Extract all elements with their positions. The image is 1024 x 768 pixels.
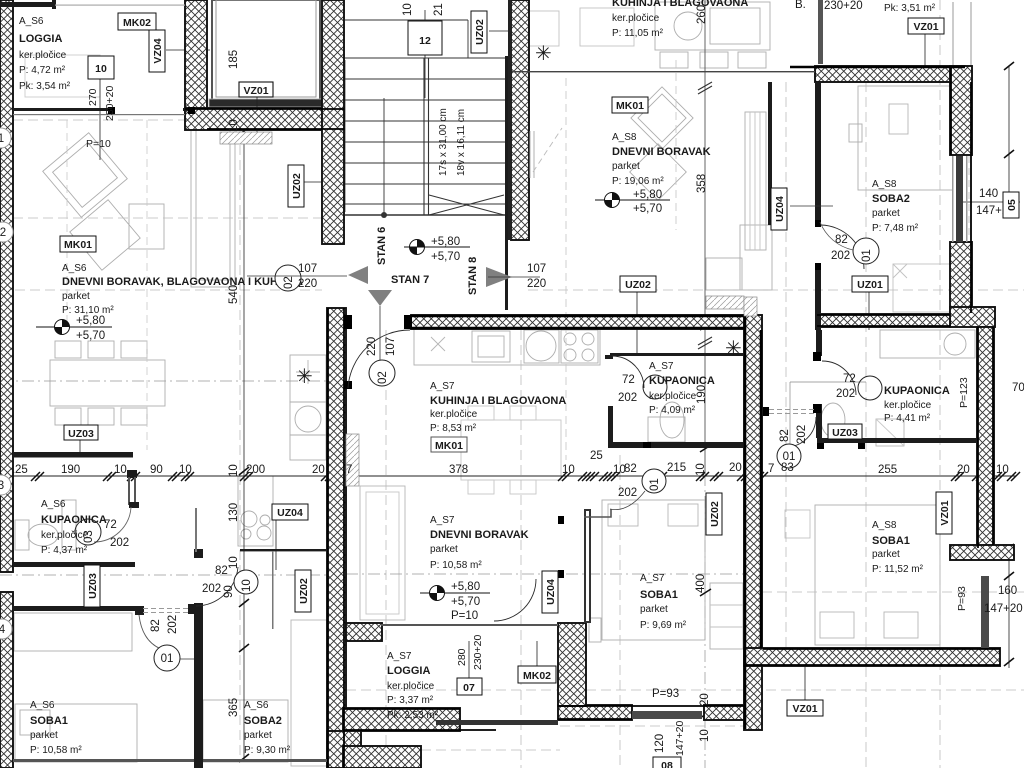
kitchen A_S6 bottom counter (238, 476, 273, 546)
sofa A_S6 (191, 117, 235, 287)
svg-text:A_S6: A_S6 (19, 16, 44, 27)
window right A_S8 soba1 (981, 576, 989, 648)
svg-text:+5,70: +5,70 (431, 251, 460, 263)
svg-text:DNEVNI BORAVAK: DNEVNI BORAVAK (430, 529, 529, 541)
svg-text:260: 260 (696, 5, 708, 24)
shaft hatches (220, 132, 272, 144)
wall A_S6 bath door frame (127, 470, 137, 478)
svg-text:02: 02 (283, 276, 295, 289)
svg-text:DNEVNI BORAVAK, BLAGOVAONA I K: DNEVNI BORAVAK, BLAGOVAONA I KUHINJA (62, 276, 303, 288)
svg-text:25: 25 (590, 450, 603, 462)
box UZ04 rotated A_S8 hall (771, 188, 787, 230)
wall A_S7 bath bottom (608, 442, 746, 448)
wall vestibule bottom (185, 108, 344, 130)
svg-text:P: 4,09 m²: P: 4,09 m² (649, 405, 696, 416)
ticks main dim (1, 472, 1020, 481)
svg-text:+5,70: +5,70 (76, 330, 105, 342)
wall A_S8 hall left (768, 82, 772, 225)
wall top-right top (815, 66, 965, 82)
svg-text:P: 7,48 m²: P: 7,48 m² (872, 223, 919, 234)
svg-text:08: 08 (661, 760, 673, 768)
door jambs black blocks (108, 107, 865, 578)
svg-text:A_S7: A_S7 (649, 361, 674, 372)
level marker A_S8 (595, 174, 708, 215)
svg-text:220: 220 (527, 278, 546, 290)
svg-text:230+20: 230+20 (472, 635, 484, 670)
wall vestibule left (185, 0, 207, 112)
leader UZ03 left (79, 438, 81, 455)
vertical dim line x706 (ticks) (700, 323, 711, 718)
leader 12 stair (424, 10, 426, 21)
svg-text:10: 10 (114, 464, 127, 476)
leader VZ01 vestibule (256, 97, 258, 143)
room text A_S6 loggia (19, 16, 71, 92)
wall A_S6 bottom window band (13, 759, 194, 762)
room text A_S6 bath (41, 499, 129, 556)
svg-text:A_S7: A_S7 (640, 573, 665, 584)
stair treads (345, 58, 505, 204)
axis vertical thin x705 (704, 0, 706, 474)
svg-text:200: 200 (246, 464, 265, 476)
svg-text:10: 10 (228, 119, 240, 132)
stair break cross bottom (429, 195, 504, 215)
svg-text:SOBA1: SOBA1 (30, 715, 68, 727)
svg-text:7: 7 (346, 464, 352, 476)
svg-text:parket: parket (244, 730, 272, 741)
svg-text:2: 2 (0, 227, 6, 239)
svg-text:UZ03: UZ03 (832, 427, 858, 439)
svg-text:+5,70: +5,70 (633, 203, 662, 215)
wall A_S8 bottom (744, 648, 1000, 666)
svg-text:B.: B. (795, 0, 806, 11)
svg-text:147+20: 147+20 (984, 603, 1023, 615)
room text A_S6 soba1 (30, 700, 82, 756)
svg-text:+5,80: +5,80 (431, 236, 460, 248)
A_S8 soba2 desk (893, 264, 953, 312)
svg-text:07: 07 (463, 682, 475, 694)
stair leader from 12 box (424, 55, 426, 98)
door A_S6 soba1 (139, 615, 161, 649)
svg-text:parket: parket (872, 549, 900, 560)
edge vestibule bottom (185, 109, 344, 129)
svg-text:10: 10 (228, 556, 240, 569)
svg-text:VZ01: VZ01 (792, 703, 817, 715)
svg-text:160: 160 (998, 585, 1017, 597)
svg-text:SOBA1: SOBA1 (640, 589, 678, 601)
top right labels (795, 0, 1019, 218)
stairs (345, 20, 505, 218)
A_S8 soba2 bed (858, 86, 953, 190)
wall left of A_S8 kitchen (511, 0, 529, 240)
wall A_S8 top window jamb (818, 0, 823, 64)
svg-text:A_S8: A_S8 (872, 520, 897, 531)
svg-text:10: 10 (179, 464, 192, 476)
wall A_S8 soba2 left (815, 82, 821, 225)
svg-text:P=93: P=93 (956, 586, 968, 611)
right bottom dims (956, 585, 1023, 615)
svg-text:KUPAONICA: KUPAONICA (41, 514, 107, 526)
svg-text:05: 05 (1006, 199, 1018, 211)
box MK02 top-left (118, 13, 156, 30)
svg-text:MK02: MK02 (523, 670, 551, 682)
wall A_S6 bath top (13, 452, 133, 458)
svg-text:230+20: 230+20 (824, 0, 863, 12)
svg-text:parket: parket (872, 208, 900, 219)
svg-text:A_S6: A_S6 (41, 499, 66, 510)
svg-text:Pk: 2,53 m²: Pk: 2,53 m² (387, 710, 439, 721)
wall loggia A_S6 bottom (window sill band) (13, 108, 110, 111)
wall A_S7 soba bottom right part (704, 705, 744, 720)
wall A_S6 bath bottom (13, 562, 135, 567)
svg-text:A_S6: A_S6 (244, 700, 269, 711)
axis vertical x866 (865, 82, 867, 768)
right edge dim line x1009 top (1008, 66, 1010, 218)
wall center apartment top (411, 315, 745, 329)
A_S8 bath text (836, 373, 1024, 424)
circled 01 A_S8 hall (768, 425, 808, 475)
svg-text:10: 10 (699, 729, 711, 742)
edge A_S7 bottom wall (558, 706, 744, 719)
right edge dim line x1009 bottom (1008, 548, 1010, 668)
edge top-right wall (790, 66, 965, 68)
wall A_S6 soba divider (194, 549, 203, 558)
box VZ01 rotated right (936, 492, 952, 534)
A_S7 dining table (461, 420, 561, 480)
doors (94, 128, 866, 659)
svg-text:10: 10 (241, 579, 253, 592)
svg-text:82: 82 (624, 463, 637, 475)
svg-text:90: 90 (150, 464, 163, 476)
A_S8top kitchen counter (655, 2, 770, 50)
svg-text:190: 190 (696, 385, 708, 404)
svg-text:VZ01: VZ01 (939, 500, 951, 525)
svg-text:270: 270 (87, 88, 99, 106)
svg-text:SOBA1: SOBA1 (872, 535, 910, 547)
circled 10 hall (202, 565, 258, 598)
sliding door A_S8 entry (530, 131, 534, 178)
heavy wall edge lines (108, 67, 1000, 768)
svg-text:358: 358 (696, 174, 708, 193)
door A_S8 soba2 (821, 225, 864, 269)
svg-text:120: 120 (654, 734, 666, 753)
svg-text:215: 215 (667, 462, 686, 474)
svg-text:147+20: 147+20 (674, 721, 686, 756)
svg-text:10: 10 (996, 464, 1009, 476)
window A_S7 soba1 bottom (632, 711, 702, 719)
box VZ01 vestibule (239, 82, 273, 97)
STAN labels and arrows (348, 227, 546, 360)
box UZ02 left living rotated (288, 165, 304, 207)
stair bottom edge (345, 214, 505, 216)
svg-text:P: 9,69 m²: P: 9,69 m² (640, 620, 687, 631)
leader MK02 loggia7 (536, 641, 538, 666)
svg-text:107: 107 (385, 337, 397, 356)
wall center-left long (327, 308, 346, 768)
svg-text:140: 140 (979, 188, 998, 200)
svg-text:01: 01 (649, 478, 661, 491)
svg-text:parket: parket (430, 544, 458, 555)
door A_S6 bath (94, 507, 131, 542)
svg-text:90: 90 (223, 585, 235, 598)
box UZ02 rotated mid (706, 493, 722, 535)
svg-text:280: 280 (456, 648, 468, 666)
svg-text:202: 202 (796, 425, 808, 444)
box UZ04 hall (272, 504, 308, 520)
wall loggia A_S7 top corner (346, 623, 382, 641)
axis dashdot y381 (0, 380, 327, 382)
leader UZ03 bath8 (842, 437, 844, 443)
svg-text:UZ03: UZ03 (87, 573, 99, 599)
svg-text:✳: ✳ (535, 43, 552, 65)
svg-text:10: 10 (695, 463, 707, 476)
A_S6 soba2 wardrobe (291, 620, 327, 766)
A_S8top wardrobe (745, 112, 766, 250)
svg-text:STAN 6: STAN 6 (376, 227, 388, 265)
axis horizontal y215 (13, 217, 322, 219)
svg-text:SOBA2: SOBA2 (872, 193, 910, 205)
svg-text:LOGGIA: LOGGIA (19, 33, 62, 45)
break marks on x705 (698, 82, 712, 349)
wall loggia A_S7 bottom (343, 708, 460, 731)
A_S6 soba1 bed (15, 704, 137, 762)
svg-text:01: 01 (861, 249, 873, 262)
svg-text:MK01: MK01 (616, 100, 644, 112)
svg-text:DNEVNI BORAVAK: DNEVNI BORAVAK (612, 146, 711, 158)
level marker A_S7 (420, 581, 490, 622)
wall A_S8 bath bottom (817, 438, 977, 443)
room text A_S7 bath (618, 361, 715, 416)
svg-text:10: 10 (562, 464, 575, 476)
edge loggia7 bottom (343, 709, 496, 730)
svg-text:7: 7 (768, 463, 774, 475)
svg-text:82: 82 (215, 565, 228, 577)
coffee table A_S6 (129, 204, 164, 249)
door A_S6 hall (196, 567, 238, 606)
window loggia A_S7 bottom rail (436, 720, 558, 725)
svg-text:P=123: P=123 (958, 377, 970, 408)
main dim numbers (15, 462, 1009, 477)
svg-text:25: 25 (15, 464, 28, 476)
level marker stairs (404, 236, 470, 263)
wall loggia A_S7 right (558, 623, 586, 706)
box VZ01 bottom (787, 700, 823, 716)
svg-text:parket: parket (640, 604, 668, 615)
door A_S7 loggia (494, 579, 536, 621)
svg-text:20: 20 (312, 464, 325, 476)
stair top landing line (345, 20, 468, 58)
A_S8 soba2 text (872, 179, 919, 234)
wall right outer seg2 (950, 242, 972, 313)
svg-text:A_S6: A_S6 (62, 263, 87, 274)
vestibule interior border (212, 0, 320, 100)
armchair A_S6 living rotated (43, 133, 128, 218)
svg-text:10: 10 (95, 63, 107, 75)
svg-text:107: 107 (298, 263, 317, 275)
svg-text:540: 540 (228, 285, 240, 304)
svg-text:+5,80: +5,80 (633, 189, 662, 201)
A_S7 bath fixtures (660, 402, 684, 438)
asterisks (296, 43, 742, 388)
svg-text:ker.pločice: ker.pločice (430, 409, 478, 420)
axis horizontal y690 (346, 689, 1024, 691)
box UZ04 rotated bottom (542, 571, 558, 613)
room text A_S7 loggia (387, 651, 439, 721)
box UZ03 rotated left (84, 565, 100, 607)
svg-text:KUHINJA I BLAGOVAONA: KUHINJA I BLAGOVAONA (430, 395, 566, 407)
leader VZ01 bottom (804, 666, 806, 700)
stair center double line (424, 58, 429, 215)
svg-text:P: 10,58 m²: P: 10,58 m² (430, 560, 482, 571)
leader UZ02 bath7 (636, 292, 638, 353)
leader UZ04 hall (275, 519, 277, 570)
svg-text:202: 202 (618, 392, 637, 404)
svg-text:255: 255 (878, 464, 897, 476)
svg-text:202: 202 (110, 537, 129, 549)
svg-text:UZ03: UZ03 (68, 428, 94, 440)
box UZ03 left (64, 425, 98, 440)
svg-text:VZ01: VZ01 (913, 21, 938, 33)
svg-text:365: 365 (228, 698, 240, 717)
svg-text:21: 21 (433, 3, 445, 16)
svg-text:STAN 7: STAN 7 (391, 274, 429, 286)
edge right outer (951, 67, 993, 548)
A_S8top armchair rotated (631, 87, 693, 149)
svg-text:UZ04: UZ04 (545, 579, 557, 605)
window right A_S8 soba2 (952, 156, 954, 242)
axis horizontal y290 (0, 289, 1024, 291)
svg-text:A_S7: A_S7 (430, 515, 455, 526)
svg-text:UZ04: UZ04 (774, 196, 786, 222)
svg-text:P=10: P=10 (86, 138, 111, 150)
svg-text:190: 190 (61, 464, 80, 476)
room text A_S6 living (60, 236, 303, 316)
svg-text:UZ02: UZ02 (298, 578, 310, 604)
svg-text:Pk: 3,54 m²: Pk: 3,54 m² (19, 81, 71, 92)
svg-text:P: 3,37 m²: P: 3,37 m² (387, 695, 434, 706)
box UZ02 rotated bottom (295, 570, 311, 612)
kitchen A_S6 column (290, 355, 326, 402)
wall loggia A_S6 top (0, 2, 55, 7)
svg-text:10: 10 (613, 464, 626, 476)
svg-text:P: 10,58 m²: P: 10,58 m² (30, 745, 82, 756)
svg-text:202: 202 (167, 615, 179, 634)
svg-text:1: 1 (0, 133, 4, 145)
svg-text:VZ04: VZ04 (152, 38, 164, 63)
svg-text:parket: parket (62, 291, 90, 302)
svg-text:VZ01: VZ01 (243, 85, 268, 97)
svg-text:+5,70: +5,70 (451, 596, 480, 608)
stair flight line with dot (383, 98, 385, 215)
svg-text:parket: parket (612, 161, 640, 172)
svg-text:A_S7: A_S7 (387, 651, 412, 662)
svg-text:03: 03 (83, 530, 95, 543)
leader UZ02 stair (489, 30, 530, 32)
edge divider wall (745, 316, 761, 729)
svg-text:UZ04: UZ04 (277, 507, 303, 519)
svg-text:MK01: MK01 (435, 440, 463, 452)
svg-text:P: 11,05 m²: P: 11,05 m² (612, 28, 664, 39)
svg-text:Pk: 3,51 m²: Pk: 3,51 m² (884, 3, 936, 14)
wall stair left top (322, 0, 344, 244)
axis vertical x520 (520, 330, 522, 768)
svg-text:82: 82 (835, 234, 848, 246)
svg-text:P: 11,52 m²: P: 11,52 m² (872, 564, 924, 575)
svg-text:P=93: P=93 (652, 688, 679, 700)
room text A_S6 soba2 (244, 700, 291, 756)
svg-text:UZ01: UZ01 (857, 279, 883, 291)
A_S7 sofa (360, 486, 405, 620)
A_S8 bath fixtures (821, 403, 845, 437)
svg-text:SOBA2: SOBA2 (244, 715, 282, 727)
svg-text:72: 72 (843, 373, 856, 385)
svg-text:72: 72 (622, 374, 635, 386)
svg-text:202: 202 (831, 250, 850, 262)
A_S8 top kitchen text (612, 0, 748, 39)
svg-text:+5,80: +5,80 (76, 315, 105, 327)
dashed minor verticals (565, 78, 567, 460)
svg-text:P: 19,06 m²: P: 19,06 m² (612, 176, 664, 187)
wall right outer seg1 (950, 66, 972, 155)
wall A_S7 soba1 left (584, 509, 591, 623)
svg-text:20: 20 (957, 464, 970, 476)
box VZ04 rotated (149, 30, 165, 72)
svg-text:MK01: MK01 (64, 239, 92, 251)
svg-text:4: 4 (0, 624, 6, 636)
A_S8top dining table (529, 11, 559, 46)
A_S8 soba1 text (872, 520, 924, 575)
svg-text:20: 20 (699, 693, 711, 706)
edge center apartment top wall (411, 316, 744, 328)
svg-text:230+20: 230+20 (104, 86, 116, 121)
room text A_S7 kitchen (430, 381, 566, 452)
A_S6 bath fixtures (28, 524, 58, 546)
svg-text:P: 8,53 m²: P: 8,53 m² (430, 423, 477, 434)
svg-text:220: 220 (366, 337, 378, 356)
axis horizontal y750 (346, 726, 744, 750)
svg-text:UZ02: UZ02 (709, 501, 721, 527)
wall A_S7 soba bottom left part (558, 705, 632, 720)
box UZ03 bath8 (828, 424, 862, 439)
svg-text:P: 4,37 m²: P: 4,37 m² (41, 545, 88, 556)
circled 02 A_S6 entry (247, 263, 347, 291)
dining table A_S6 (50, 360, 165, 406)
level marker A_S6 (36, 315, 112, 342)
svg-text:parket: parket (30, 730, 58, 741)
axis horizontal y120 (13, 119, 185, 121)
svg-text:KUHINJA I BLAGOVAONA: KUHINJA I BLAGOVAONA (612, 0, 748, 9)
svg-text:✳: ✳ (725, 338, 742, 360)
svg-text:83: 83 (781, 462, 794, 474)
wall divider apartments A_S7/A_S8 (744, 315, 762, 730)
leader UZ04 A_S8 hall (790, 205, 833, 207)
svg-text:130: 130 (228, 503, 240, 522)
leader 07 loggia (468, 641, 470, 678)
leader 10-box loggia (99, 79, 101, 160)
vertical dim line x244 (243, 130, 245, 762)
svg-text:ker.pločice: ker.pločice (884, 400, 932, 411)
svg-text:✳: ✳ (296, 366, 313, 388)
svg-text:01: 01 (161, 653, 174, 665)
svg-text:KUPAONICA: KUPAONICA (884, 385, 950, 397)
room text A_S7 soba1 (640, 573, 687, 631)
svg-text:202: 202 (618, 487, 637, 499)
svg-text:+5,80: +5,80 (451, 581, 480, 593)
svg-text:220: 220 (298, 278, 317, 290)
svg-text:STAN 8: STAN 8 (467, 257, 479, 295)
svg-text:378: 378 (449, 464, 468, 476)
wall SOBA2 bottom (817, 314, 950, 327)
svg-text:17s x 31,00 cm: 17s x 31,00 cm (438, 108, 449, 176)
